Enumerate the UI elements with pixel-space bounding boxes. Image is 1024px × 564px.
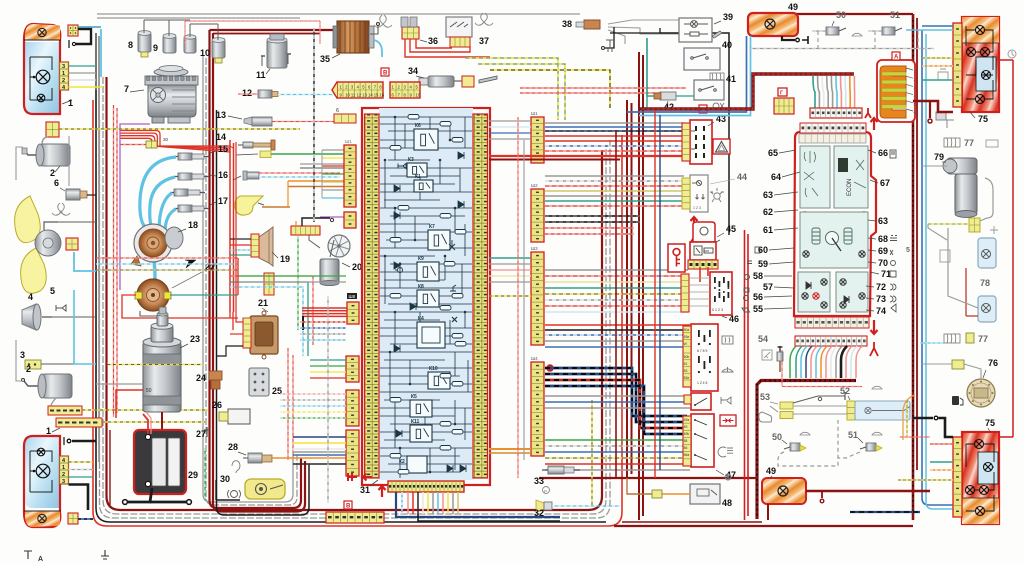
wire black from block bottom right <box>418 514 560 521</box>
component 10a cylinder <box>184 37 196 53</box>
headlamp 1 (bottom left) body <box>25 437 60 508</box>
wire bundle Sh2 to switch 44 <box>545 175 684 177</box>
horn 4 <box>22 304 36 330</box>
electric fan 5 motor <box>35 230 61 256</box>
connector strip of item 2 (top) <box>46 122 59 137</box>
svg-text:56a: 56a <box>684 453 690 457</box>
sensor 50 bottom <box>784 443 806 451</box>
alternator 7 body <box>145 66 198 124</box>
tail lamp bottom internal wiring <box>966 444 995 511</box>
svg-text:39: 39 <box>723 12 733 22</box>
svg-text:38: 38 <box>562 19 572 29</box>
horn icon 47 <box>721 397 731 404</box>
tail lamp 75 top body <box>962 17 999 112</box>
cluster right panel ECON <box>834 146 868 208</box>
connector strips below horn <box>48 406 82 415</box>
wire teal coil <box>170 294 238 296</box>
cluster side icons right <box>890 150 897 312</box>
ignition switch 45 bracket <box>693 222 715 242</box>
svg-text:16: 16 <box>218 170 228 180</box>
horn 2 (bottom) body <box>42 374 72 398</box>
cluster fanout wires <box>790 346 796 378</box>
distributor 18 body <box>131 224 183 266</box>
cluster middle panel gauge <box>800 212 868 268</box>
clamp 50 top <box>826 27 839 35</box>
relay К3 <box>407 157 427 177</box>
small red connector G tag <box>778 88 787 96</box>
relay К7 <box>428 224 450 250</box>
tail lamp top internal wiring <box>966 26 993 99</box>
relay К11 <box>410 419 432 442</box>
svg-text:A: A <box>38 556 43 563</box>
clamp 51 top <box>882 27 895 35</box>
cluster lower panels <box>798 272 830 312</box>
spark plug 16 <box>174 173 209 180</box>
wire gray dashed from item 20 down <box>327 296 329 503</box>
motor 35 wires <box>374 40 382 57</box>
svg-text:56: 56 <box>753 292 763 302</box>
wire dark red to tail lamp top <box>913 101 953 112</box>
wire green mid <box>238 275 346 277</box>
wire red coil <box>122 295 238 318</box>
svg-text:Ш1: Ш1 <box>531 111 538 116</box>
fan icon by 37 <box>475 13 493 25</box>
red ignition wire fan-out <box>120 131 160 147</box>
svg-text:65: 65 <box>768 148 778 158</box>
svg-text:53e: 53e <box>684 376 690 380</box>
connector strip Sh4 middle <box>531 362 544 456</box>
wire red loops center-left <box>237 258 239 295</box>
HT lead coil to distributor <box>154 262 155 280</box>
switch assembly 47 block1 <box>683 324 718 391</box>
cluster lamp symbols upper <box>802 212 808 218</box>
wire bottom bus right extension dark red <box>614 525 913 527</box>
svg-text:53e: 53e <box>684 335 690 339</box>
light switch 44 <box>682 175 708 212</box>
headlamp 1b feed connector <box>68 513 78 524</box>
yellow connector G <box>774 98 794 114</box>
wire green from 5 <box>271 153 345 155</box>
headlamp 1b label <box>52 428 60 432</box>
fuel pump icon <box>952 396 963 405</box>
block junction dots <box>384 116 467 474</box>
mounting block 31 interior <box>379 108 473 480</box>
turn arrows icon red <box>720 415 736 426</box>
wire teal vertical top <box>646 38 648 108</box>
svg-text:2: 2 <box>26 364 31 374</box>
wire verticals between strips and switches <box>615 130 617 478</box>
wire yellow dashed pair to trunk <box>82 409 208 411</box>
svg-text:13: 13 <box>216 110 226 120</box>
interior lamp 78 lower <box>978 296 996 322</box>
fan connector yellow <box>66 238 78 250</box>
wire teal 41-42 <box>647 38 654 96</box>
svg-text:15: 15 <box>218 144 228 154</box>
wire gray vertical x524 <box>523 140 525 460</box>
electric fan 5 blades <box>15 196 41 243</box>
wire top right dark red horizontal <box>790 13 913 15</box>
svg-text:73: 73 <box>876 294 886 304</box>
lower connector strip 2row <box>326 512 384 523</box>
tail lamp bottom feed wires <box>930 443 953 445</box>
cluster top connector cells <box>800 123 866 133</box>
wire bundle Sh1 to switch 43 <box>545 122 684 124</box>
red node dot <box>546 364 554 372</box>
svg-text:50: 50 <box>772 432 782 442</box>
wire far right red link tail lamps <box>1012 60 1014 437</box>
svg-text:32: 32 <box>534 508 544 518</box>
svg-text:40: 40 <box>722 40 732 50</box>
svg-text:50b: 50b <box>684 355 690 359</box>
wire bundle to 47 bottom <box>545 439 690 441</box>
svg-text:5: 5 <box>906 247 910 254</box>
tail lamp 75 top bulbs <box>976 26 985 35</box>
svg-text:К6: К6 <box>415 123 421 129</box>
svg-text:1: 1 <box>68 98 73 108</box>
svg-text:12: 12 <box>242 88 252 98</box>
svg-text:6 7 8 9: 6 7 8 9 <box>697 349 707 353</box>
wire 49b to bus <box>767 504 769 520</box>
mounting block 31 outer <box>362 108 490 485</box>
svg-text:75: 75 <box>978 114 988 124</box>
svg-text:11: 11 <box>256 70 266 80</box>
tail lamp 75 top connector strip <box>953 23 962 107</box>
tail lamp 75 bottom bulbs <box>975 440 984 449</box>
icon choke 41 <box>713 103 724 109</box>
svg-text:45: 45 <box>726 224 736 234</box>
wire black thick from cluster <box>841 346 847 378</box>
svg-text:28: 28 <box>228 442 238 452</box>
block bottom connector strip <box>388 481 464 492</box>
svg-text:64: 64 <box>771 172 781 182</box>
svg-text:54: 54 <box>758 334 768 344</box>
svg-text:68: 68 <box>878 234 888 244</box>
svg-text:7: 7 <box>124 84 129 94</box>
headlight icon 47 <box>718 447 733 457</box>
switch 37 <box>446 17 472 47</box>
svg-text:11: 11 <box>351 93 356 98</box>
wire red 36 loop <box>405 39 490 57</box>
wire dashes left bundle <box>96 257 238 259</box>
ground symbols bottom left <box>24 550 109 559</box>
svg-text:50a: 50a <box>684 328 690 332</box>
svg-text:55: 55 <box>753 304 763 314</box>
bolt 27 <box>204 427 210 437</box>
svg-text:13: 13 <box>362 93 367 98</box>
component 24 <box>209 371 222 380</box>
wire mid trunk red vertical pair x230 <box>229 140 231 312</box>
item 77 icon top <box>944 138 960 147</box>
connector strip Sh3 middle <box>531 252 544 345</box>
relay 26 <box>228 409 250 424</box>
fan motor 20 body <box>320 259 339 283</box>
relay К8 <box>417 284 439 307</box>
svg-text:31: 31 <box>360 485 370 495</box>
fan icon small <box>52 203 70 215</box>
wire gray pair right <box>300 163 344 165</box>
svg-text:79: 79 <box>934 152 944 162</box>
wire green from pin 1 <box>69 65 97 67</box>
wire left trunk black pair <box>95 33 97 470</box>
wire black to tail lamp bottom <box>913 417 933 420</box>
headlamp 1 inner reflector outline <box>30 57 52 100</box>
svg-text:48: 48 <box>722 498 732 508</box>
wire weave horizontals <box>230 275 313 277</box>
wire black 49 <box>782 36 795 40</box>
icon bulb 44 <box>710 188 724 202</box>
black arrow pointer <box>185 260 196 268</box>
connector strip Sh2 middle <box>531 189 544 242</box>
wire cyan left lower <box>74 290 96 364</box>
svg-text:К5: К5 <box>411 394 417 400</box>
speaker 19 <box>251 227 273 266</box>
svg-text:71: 71 <box>881 269 891 279</box>
relay K2 square <box>399 456 427 473</box>
wire pink dashed top box <box>185 20 320 22</box>
red arrow down cluster <box>871 320 878 334</box>
wires 38 to 39 <box>608 20 679 24</box>
device 11 <box>261 34 291 68</box>
wire yellow long <box>489 295 531 297</box>
svg-text:3: 3 <box>62 479 65 485</box>
svg-text:К3: К3 <box>408 157 414 163</box>
sensor 12 <box>258 90 278 98</box>
svg-text:20: 20 <box>352 262 362 272</box>
svg-text:76: 76 <box>988 358 998 368</box>
svg-text:6: 6 <box>336 108 339 114</box>
wiper glyph 52 <box>872 386 882 389</box>
svg-text:1 2 3: 1 2 3 <box>693 206 701 210</box>
svg-text:18: 18 <box>188 220 198 230</box>
headlamp 1 marker bulb <box>37 94 45 102</box>
cluster red crossed lamp <box>813 293 819 299</box>
headlamp 1b reflector outline <box>30 451 52 492</box>
svg-text:4: 4 <box>28 292 33 302</box>
svg-text:27: 27 <box>196 429 206 439</box>
switch 39 <box>679 18 712 42</box>
wire center trunk dark red x627 <box>626 100 628 478</box>
wire bundle bold to 47 mid <box>545 368 687 416</box>
svg-text:1 2 4 5: 1 2 4 5 <box>697 381 707 385</box>
horn 2 (top) body <box>42 137 48 145</box>
item 77 icon <box>944 334 960 343</box>
svg-text:9: 9 <box>153 43 158 53</box>
svg-text:2: 2 <box>50 168 55 178</box>
red bundle to Sh8 <box>302 307 347 309</box>
svg-text:41: 41 <box>726 74 736 84</box>
svg-text:16: 16 <box>379 93 384 98</box>
antenna mark <box>606 40 614 52</box>
svg-text:К10: К10 <box>429 366 438 372</box>
sensor 32 <box>536 500 544 512</box>
component 9 cylinder <box>163 36 176 53</box>
pedal icon 34 <box>479 76 497 83</box>
yellow conn 76 <box>952 360 964 369</box>
svg-text:10: 10 <box>345 93 350 98</box>
svg-text:К11: К11 <box>411 419 420 425</box>
spark plug 17b <box>174 205 209 212</box>
module 21 (ignition control) <box>243 311 278 359</box>
seat icon <box>759 412 772 422</box>
sensor 3 <box>244 117 272 126</box>
wire blue stub bottom lamp <box>78 518 93 520</box>
connector 42 <box>660 92 676 100</box>
wire right-of-switch trunk red x745 <box>744 230 746 520</box>
wire bundle Sh3 to 47 upper <box>545 324 690 326</box>
svg-text:37: 37 <box>479 36 489 46</box>
wire center-left trunk black <box>217 110 310 515</box>
license lamp 49 bottom <box>762 478 806 504</box>
svg-text:5: 5 <box>50 286 55 296</box>
connector 5 green <box>260 151 271 158</box>
block small icons <box>395 164 457 323</box>
wire red dashed pair to module 21 <box>287 348 289 460</box>
wire brown 48 <box>660 493 690 495</box>
marker A red <box>892 52 900 60</box>
svg-text:36: 36 <box>428 36 438 46</box>
wire cyan from headlamp area down <box>100 29 102 77</box>
red arrow up below block <box>379 486 386 497</box>
wire 32 dashed <box>552 505 620 507</box>
red dashed wire with connector <box>120 144 146 146</box>
svg-text:49: 49 <box>766 466 776 476</box>
tail lamp 75 bottom body <box>962 432 999 524</box>
item 3 connector <box>25 360 41 369</box>
svg-text:17: 17 <box>218 196 228 206</box>
wire yellow dashed vertical x592 <box>591 400 593 506</box>
wire orange right of block <box>489 448 531 450</box>
relay 48 <box>690 484 720 504</box>
wire pink dashed from 3 <box>272 121 344 123</box>
wire gray top bus <box>97 13 580 15</box>
wire black from 6cell strip <box>302 218 330 226</box>
block label 31 and arrows <box>348 473 357 481</box>
cluster bottom connector row2 <box>795 336 867 346</box>
strip 6 small <box>334 114 356 123</box>
connector strip Sh6 lower <box>346 430 359 476</box>
svg-text:69: 69 <box>878 246 888 256</box>
svg-text:Ш2: Ш2 <box>531 183 538 188</box>
relay 40 <box>684 48 720 70</box>
wire dark red starter 30 <box>161 412 163 430</box>
svg-text:35: 35 <box>320 54 330 64</box>
ignition key icon 45 <box>668 244 685 272</box>
svg-text:К1: К1 <box>415 174 421 180</box>
svg-text:Ш4: Ш4 <box>531 356 538 361</box>
fuel sender 76 <box>967 379 995 407</box>
wire yellow dash wiper <box>928 223 969 225</box>
wire orange from 7 <box>262 206 290 208</box>
horn 30 glyph <box>231 491 238 498</box>
svg-text:15: 15 <box>374 93 379 98</box>
wire bottom bus concentric harness <box>96 90 606 522</box>
svg-text:8: 8 <box>128 40 133 50</box>
svg-text:51: 51 <box>684 362 688 366</box>
label 21 pointer <box>262 308 268 312</box>
svg-text:78: 78 <box>980 278 990 288</box>
wire cyan fan <box>74 252 96 271</box>
wire teal long from block <box>489 257 531 259</box>
black tag Sh8 <box>347 293 357 299</box>
svg-text:33: 33 <box>534 476 544 486</box>
svg-text:23: 23 <box>190 334 200 344</box>
svg-text:70: 70 <box>878 258 888 268</box>
wires into left Sh strips <box>300 321 346 323</box>
icon grid 40 <box>710 73 724 81</box>
cluster feed fanout <box>813 76 815 108</box>
wires fuel sender curves <box>903 395 915 440</box>
switch assembly 47 block2 <box>684 393 711 410</box>
wire black headlamp feed <box>76 29 91 44</box>
heater motor 35 <box>333 21 374 53</box>
wire black 39 trunk L <box>610 28 660 33</box>
svg-text:A: A <box>894 55 899 61</box>
svg-text:59: 59 <box>758 259 768 269</box>
icon wiper small <box>852 33 862 36</box>
red Y junction symbol <box>865 108 871 118</box>
wiper glyph 50 <box>800 432 810 435</box>
svg-text:67: 67 <box>880 178 890 188</box>
wire center trunk dark red x639 <box>638 52 640 520</box>
svg-text:К2: К2 <box>399 459 405 465</box>
red dashed harness boundary <box>782 386 862 388</box>
washer pump 52 <box>847 401 855 420</box>
wire top horizontal dark red to heater <box>210 29 336 31</box>
wires into Sh1 strip <box>322 149 344 151</box>
svg-text:6: 6 <box>54 178 59 188</box>
sensor 6 <box>66 189 80 200</box>
svg-text:К9: К9 <box>418 256 424 262</box>
connector strip Sh1 left of block <box>344 145 356 207</box>
switch assembly 47 block3 <box>683 414 714 467</box>
connector strip left of block lower <box>344 212 356 228</box>
relay К10 <box>428 366 450 389</box>
mounting block right pin strip <box>473 114 488 478</box>
rod 4 <box>238 140 275 150</box>
fuse box B strip 1 <box>332 82 385 98</box>
wire center-left trunk gray pair <box>203 55 293 502</box>
svg-text:66: 66 <box>878 148 888 158</box>
wire bundle Sh3 to column switch 46 <box>545 269 688 271</box>
wires cylinders to top bus <box>144 20 218 40</box>
svg-text:1: 1 <box>46 426 51 436</box>
svg-text:58: 58 <box>753 271 763 281</box>
wire bundle to 47 low <box>545 395 690 397</box>
washer reservoir 52 <box>855 401 910 420</box>
wire red to lamp 78 <box>965 268 967 316</box>
svg-text:53: 53 <box>760 392 770 402</box>
item 54 bolt <box>777 346 783 372</box>
wire red battery up <box>143 414 148 434</box>
svg-text:50: 50 <box>836 10 846 20</box>
svg-text:72: 72 <box>876 282 886 292</box>
svg-text:B: B <box>346 504 351 510</box>
wire black bottom headlamp feed <box>69 485 89 511</box>
cluster top connector <box>810 108 862 118</box>
relay К5 <box>410 394 432 417</box>
marker B2 red <box>344 501 352 509</box>
relay К6 <box>414 123 438 150</box>
svg-text:58: 58 <box>684 439 688 443</box>
icon lamp 48 <box>725 474 731 480</box>
wire black 38 down <box>605 27 614 48</box>
wire gray from pin 2 <box>69 72 97 74</box>
svg-text:19: 19 <box>280 254 290 264</box>
headlamp 1b turn lamp <box>38 514 46 522</box>
svg-text:Ш1: Ш1 <box>345 139 352 144</box>
cluster left panel <box>800 146 830 208</box>
horn 30 box <box>245 479 285 499</box>
